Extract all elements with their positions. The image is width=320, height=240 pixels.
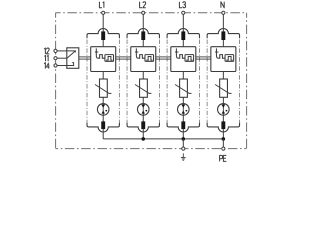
wire: spark gap to bottom contact (L3) <box>182 115 184 121</box>
square wave symbol inside monitoring unit (L3) <box>178 55 185 59</box>
wire: disconnector to monitoring unit (L3) <box>182 40 184 50</box>
disconnect indicator box inside monitoring unit (L3) <box>185 55 194 62</box>
wire: bottom contact to earth bus (N) <box>222 129 224 139</box>
module N boundary line right (dash-dot) <box>239 40 241 123</box>
wire: monitoring unit to varistor (L1) <box>102 72 104 80</box>
wire: varistor to spark gap (L3) <box>182 97 184 104</box>
module L1 housing bottom bracket with arc <box>87 122 119 132</box>
device enclosure border right (dash-dot) <box>246 13 248 149</box>
step pulse inside indicator box (L2) <box>146 57 152 61</box>
wire: terminal 12 to contact box <box>56 50 67 52</box>
device enclosure border left (dash-dot) <box>55 13 57 149</box>
thermal disconnector contact (L1 module) <box>101 31 105 40</box>
wire: monitoring unit to varistor (L3) <box>182 72 184 80</box>
wire: terminal 14 to contact box <box>56 65 67 67</box>
wire: spark gap to bottom contact (L2) <box>142 115 144 121</box>
wire: bottom contact to earth bus (L1) <box>102 129 104 139</box>
module L3 housing top bracket with arc <box>167 28 199 38</box>
mechanical link module L2 to module L3 (double line) <box>156 57 171 59</box>
module L2 housing bottom bracket with arc <box>127 122 159 132</box>
wire: monitoring unit to varistor (L2) <box>142 72 144 80</box>
terminal 12 <box>54 49 57 52</box>
changeover contact box FM <box>67 48 79 69</box>
label PE <box>220 155 227 161</box>
NO contact 14 <box>67 63 74 66</box>
terminal L1 <box>102 11 105 14</box>
square wave symbol inside monitoring unit (N) <box>218 55 225 59</box>
wire: disconnector to monitoring unit (L1) <box>102 40 104 50</box>
junction dot at N column <box>222 137 226 141</box>
module L3 housing bottom bracket with arc <box>167 122 199 132</box>
wire: monitoring unit to varistor (N) <box>222 72 224 80</box>
monitoring unit box (N module) <box>211 47 236 72</box>
wire: varistor to spark gap (N) <box>222 97 224 104</box>
module N housing bottom bracket with arc <box>207 122 239 132</box>
wire: bottom contact to earth bus (L2) <box>142 129 144 139</box>
step pulse inside indicator box (N) <box>226 57 232 61</box>
wire: varistor to spark gap (L2) <box>142 97 144 104</box>
module L2 boundary line left (dash-dot) <box>126 40 128 123</box>
wire: spark gap to bottom contact (L1) <box>102 115 104 121</box>
surge impulse symbol inside monitoring unit (L2) <box>135 48 138 58</box>
thermal disconnector contact (L2 module) <box>141 31 145 40</box>
module L3 boundary line right (dash-dot) <box>199 40 201 123</box>
junction dot at L3 column <box>182 137 186 141</box>
wire: terminal L3 to thermal disconnector <box>182 15 184 32</box>
surge impulse symbol inside monitoring unit (L3) <box>175 48 178 58</box>
varistor (L2 module) <box>135 79 151 97</box>
square wave symbol inside monitoring unit (L1) <box>98 55 105 59</box>
wire: spark gap to bottom contact (N) <box>222 115 224 121</box>
wire: bus to earth terminal <box>182 139 184 149</box>
monitoring unit box (L1 module) <box>91 47 116 72</box>
monitoring unit box (L2 module) <box>131 47 156 72</box>
mechanical link module L1 to module L2 (double line) <box>116 57 131 59</box>
disconnect indicator box inside monitoring unit (N) <box>225 55 234 62</box>
module L1 boundary line left (dash-dot) <box>86 40 88 123</box>
step pulse inside indicator box (L3) <box>186 57 192 61</box>
earth bus wire joining module bottoms <box>103 138 223 140</box>
terminal 11 <box>54 57 57 60</box>
spark gap (L1 module) <box>97 104 109 116</box>
terminal L2 <box>142 11 145 14</box>
module L1 boundary line right (dash-dot) <box>118 40 120 123</box>
wire: terminal 11 to contact box <box>56 57 67 59</box>
device enclosure border top (dash-dot) <box>56 12 247 14</box>
spark gap (L2 module) <box>137 104 149 116</box>
label L3 <box>179 2 185 8</box>
junction dot at L2 column <box>141 137 145 141</box>
disconnect indicator box inside monitoring unit (L2) <box>145 55 154 62</box>
spark gap (N module) <box>218 104 230 116</box>
wire: disconnector to monitoring unit (L2) <box>142 40 144 50</box>
mechanical link FM contact to module L1 (double line) <box>79 57 91 59</box>
label L1 <box>99 2 104 8</box>
wire: bottom contact to earth bus (L3) <box>182 129 184 139</box>
terminal 14 <box>54 64 57 67</box>
bottom plug contact (N module) <box>221 121 225 129</box>
varistor (N module) <box>215 79 231 97</box>
NC contact path 12-11 (blade) <box>67 51 76 58</box>
bottom plug contact (L1 module) <box>101 121 105 129</box>
label 12 <box>44 48 49 54</box>
module L2 housing top bracket with arc <box>127 28 159 38</box>
wire: terminal L1 to thermal disconnector <box>102 15 104 32</box>
mechanical link module L3 to module N (double line) <box>196 57 211 59</box>
terminal earth (on bottom border) <box>182 147 185 150</box>
varistor (L3 module) <box>175 79 191 97</box>
terminal N <box>222 11 225 14</box>
varistor (L1 module) <box>95 79 111 97</box>
wire: terminal L2 to thermal disconnector <box>142 15 144 32</box>
bottom plug contact (L2 module) <box>141 121 145 129</box>
square wave symbol inside monitoring unit (L2) <box>138 55 145 59</box>
terminal PE (on bottom border) <box>222 147 225 150</box>
step pulse inside indicator box (L1) <box>106 57 112 61</box>
thermal disconnector contact (L3 module) <box>181 31 185 40</box>
module L1 housing top bracket with arc <box>87 28 119 38</box>
device enclosure border bottom (dash-dot) <box>56 148 247 150</box>
surge impulse symbol inside monitoring unit (L1) <box>95 48 98 58</box>
label 11 <box>44 55 48 61</box>
spark gap (L3 module) <box>178 104 190 116</box>
wire: varistor to spark gap (L1) <box>102 97 104 104</box>
module L2 boundary line right (dash-dot) <box>158 40 160 123</box>
wire: disconnector to monitoring unit (N) <box>222 40 224 50</box>
label N <box>221 2 224 8</box>
wire: terminal N to thermal disconnector <box>222 15 224 32</box>
disconnect indicator box inside monitoring unit (L1) <box>105 55 114 62</box>
label 14 <box>44 63 49 69</box>
wire: bus to PE terminal <box>222 139 224 149</box>
thermal disconnector contact (N module) <box>221 31 225 40</box>
earth ground symbol <box>181 153 186 160</box>
terminal L3 <box>182 11 185 14</box>
surge impulse symbol inside monitoring unit (N) <box>215 48 218 58</box>
module L3 boundary line left (dash-dot) <box>166 40 168 123</box>
monitoring unit box (L3 module) <box>171 47 196 72</box>
module N boundary line left (dash-dot) <box>206 40 208 123</box>
label L2 <box>140 2 146 8</box>
module N housing top bracket with arc <box>207 28 239 38</box>
bottom plug contact (L3 module) <box>181 121 185 129</box>
